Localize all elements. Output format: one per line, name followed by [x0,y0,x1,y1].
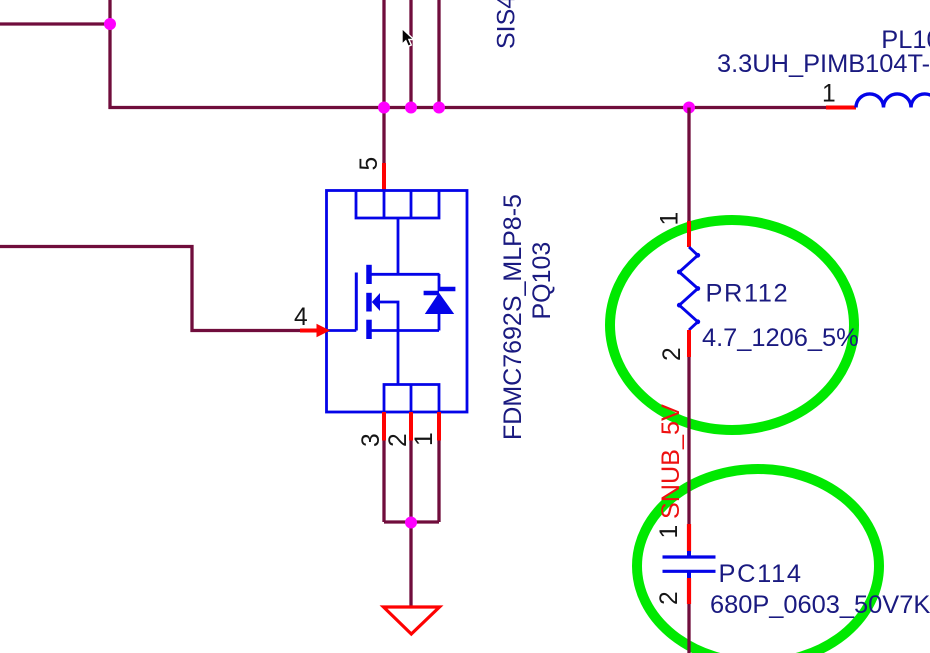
wire: horizontal join y=522 [384,520,439,523]
source horizontal line [372,329,440,332]
svg-text:FDMC7692S_MLP8-5: FDMC7692S_MLP8-5 [499,194,527,440]
channel bar top [366,265,372,284]
capacitor top lead [687,551,691,556]
junction dot at (411,107.5) [405,102,417,114]
capacitor bottom lead [687,573,691,579]
svg-text:PC114: PC114 [719,560,803,588]
capacitor bottom plate [663,570,716,573]
highlight ellipse around PC114 [637,469,879,653]
svg-text:3: 3 [358,433,385,447]
pin 2 stub (red) [409,412,413,441]
svg-text:4: 4 [294,304,308,331]
junction dot at (439,107.5) [433,102,445,114]
svg-text:1: 1 [656,525,683,539]
wire: main horizontal bus y=107.5 [109,106,827,109]
junction dot at (689,107.5) [683,102,695,114]
channel bar middle [366,293,372,312]
wire: below capacitor to bottom edge [687,604,690,653]
pin 5 stub (red) [382,163,386,191]
svg-text:SIS45V: SIS45V [493,0,521,49]
resistor vertex nubs [677,253,700,324]
resistor pin 2 stub (red) [687,330,691,357]
wire: vertical x=384 (to MOSFET pin 5) [382,0,385,163]
bottom pin cells [384,385,439,413]
gate lead to pin 4 [328,329,356,332]
source riser to bottom cells [397,331,400,385]
svg-text:4.7_1206_5%: 4.7_1206_5% [702,324,859,352]
drain riser from top cells [397,218,400,274]
highlight ellipse around PR112 [610,220,854,430]
body diode cathode lead [438,274,441,291]
inductor PL10 coil [856,94,930,108]
ground symbol [384,607,440,634]
svg-text:3.3UH_PIMB104T-3: 3.3UH_PIMB104T-3 [717,50,930,78]
top pin cells [356,191,439,219]
transistor PQ103 body outline [327,191,468,413]
capacitor top plate [663,555,716,558]
pin 4 red segment [300,329,318,333]
pin 4 arrowhead [317,324,331,338]
wire: pin 2 down to ground [409,441,412,607]
junction dot at (110,24) [104,18,116,30]
gate vertical bar [355,273,358,331]
resistor PR112 zigzag [679,247,698,330]
pin 3 stub (red) [382,412,386,441]
body diode cathode bar (zener style) [424,289,456,293]
svg-text:1: 1 [411,432,438,446]
wire: left vertical x=110 [108,0,111,109]
mouse cursor [402,28,414,46]
wire: left horizontal to gate [0,247,301,331]
junction dot at (411,523) [405,517,417,529]
body diode triangle [425,293,454,314]
wire: right branch vertical from bus [687,108,690,222]
body connection line [380,302,399,331]
svg-text:680P_0603_50V7K: 680P_0603_50V7K [710,591,930,619]
drain horizontal line [369,273,440,276]
wire: vertical x=411 [409,0,412,108]
resistor pin 1 stub (red) [687,221,691,247]
body arrow on middle bar [372,293,380,311]
svg-text:2: 2 [656,591,683,605]
svg-text:1: 1 [822,81,836,108]
channel bar bottom [366,320,372,339]
wire: vertical x=439 [437,0,440,108]
inductor pin 1 stub (red) [826,106,856,110]
wire: between resistor and capacitor [687,357,690,524]
svg-text:2: 2 [385,433,412,447]
pin 1 stub (red) [437,412,441,441]
wire: pin 3 down [382,441,385,523]
wire: pin 1 down [437,441,440,523]
capacitor pin 1 stub (red) [687,524,691,552]
svg-text:5: 5 [356,157,383,171]
junction dot at (384,107.5) [378,102,390,114]
svg-text:PR112: PR112 [706,280,790,308]
capacitor pin 2 stub (red) [687,578,691,604]
body diode anode lead [438,314,441,331]
svg-text:2: 2 [659,347,686,361]
wire: top-left horizontal [0,22,110,25]
svg-text:SNUB_5V: SNUB_5V [657,404,685,519]
svg-text:1: 1 [657,212,684,226]
svg-text:PQ103: PQ103 [528,242,556,320]
